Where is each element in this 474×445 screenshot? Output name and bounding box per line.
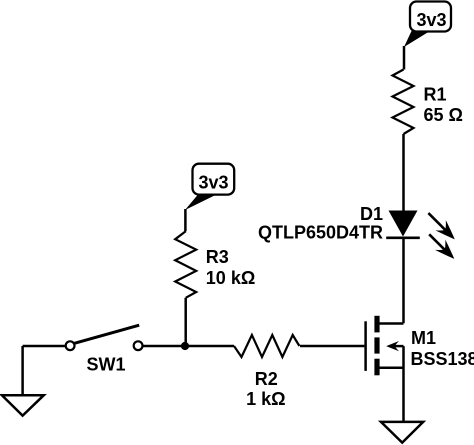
svg-text:R1: R1 xyxy=(424,85,447,105)
svg-text:65 Ω: 65 Ω xyxy=(424,105,463,125)
svg-text:SW1: SW1 xyxy=(87,355,126,375)
svg-text:R2: R2 xyxy=(255,369,278,389)
svg-text:D1: D1 xyxy=(360,204,383,224)
svg-text:1 kΩ: 1 kΩ xyxy=(246,389,285,409)
svg-text:QTLP650D4TR: QTLP650D4TR xyxy=(258,223,383,243)
svg-text:R3: R3 xyxy=(206,247,229,267)
svg-text:3v3: 3v3 xyxy=(416,10,446,30)
svg-text:10 kΩ: 10 kΩ xyxy=(206,268,255,288)
svg-text:BSS138: BSS138 xyxy=(411,349,474,369)
svg-text:M1: M1 xyxy=(411,328,436,348)
svg-text:3v3: 3v3 xyxy=(198,173,228,193)
